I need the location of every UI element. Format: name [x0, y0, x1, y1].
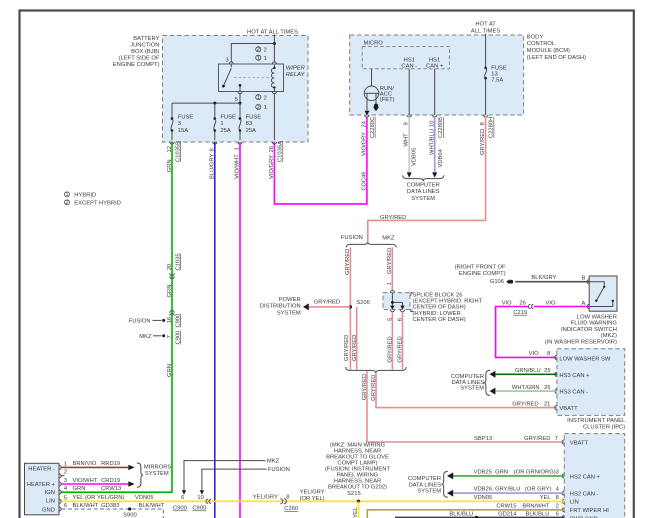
wire: branch to relay pin 3	[231, 44, 274, 62]
svg-text:CRW13: CRW13	[101, 486, 121, 492]
wire WHT/BLU (to data link)	[434, 117, 436, 172]
connector C219 arcs	[528, 304, 533, 308]
svg-text:BODY: BODY	[527, 34, 544, 40]
svg-text:BLK/BLU: BLK/BLU	[526, 512, 550, 518]
svg-text:16: 16	[167, 317, 173, 323]
svg-text:YEL: YEL	[540, 495, 552, 501]
node S215	[357, 500, 360, 503]
svg-text:1: 1	[387, 282, 393, 285]
svg-text:INSTRUMENT PANEL: INSTRUMENT PANEL	[567, 418, 626, 424]
svg-text:HYBRID: HYBRID	[74, 192, 96, 198]
svg-text:VDN05: VDN05	[474, 495, 493, 501]
svg-text:C1035: C1035	[175, 253, 181, 270]
svg-text:FUSION: FUSION	[341, 235, 363, 241]
svg-text:CENTER OF DASH): CENTER OF DASH)	[413, 305, 466, 311]
svg-text:(OR GRY): (OR GRY)	[525, 487, 552, 493]
svg-text:YEL/GRY: YEL/GRY	[253, 495, 278, 501]
svg-text:25A: 25A	[246, 128, 256, 134]
svg-text:GRN: GRN	[167, 364, 173, 377]
wire BRN/WHT frt wiper hi	[367, 510, 564, 518]
svg-text:VIO: VIO	[546, 301, 556, 307]
svg-text:INDICATOR SWITCH: INDICATOR SWITCH	[561, 327, 617, 333]
wire GRY/RED merged to IPC VBATT pin21	[376, 373, 557, 408]
svg-text:MKZ: MKZ	[382, 235, 395, 241]
svg-text:S206: S206	[356, 300, 370, 306]
svg-text:YEL/GRY: YEL/GRY	[300, 490, 325, 496]
svg-text:8: 8	[556, 495, 559, 501]
pin number labels 1-6	[64, 461, 68, 509]
wire VIO/GRY (BJB pin26 to BCM pin24)	[274, 117, 367, 204]
svg-text:CDC46: CDC46	[361, 171, 367, 190]
svg-text:BLK/WHT: BLK/WHT	[139, 503, 165, 509]
splice S215 location label	[325, 442, 391, 496]
legend except hybrid	[65, 200, 121, 207]
wire: feed into BJB	[273, 35, 275, 62]
computer data lines system label	[451, 374, 484, 392]
IPC2 pin names	[570, 440, 609, 518]
relay coil	[273, 65, 275, 68]
wire GRY/RED MKZ branch to splice block	[391, 247, 393, 290]
svg-text:(MKZ): (MKZ)	[601, 333, 617, 339]
svg-text:VDN05: VDN05	[135, 495, 154, 501]
svg-text:(LEFT END OF DASH): (LEFT END OF DASH)	[527, 55, 586, 61]
body control module BCM enclosure	[350, 35, 524, 115]
svg-text:GRN: GRN	[167, 285, 173, 298]
svg-text:GRN: GRN	[495, 470, 508, 476]
wiper relay box	[219, 64, 284, 92]
svg-text:C900: C900	[192, 506, 206, 512]
node S900	[128, 507, 131, 510]
svg-text:GD383: GD383	[101, 503, 119, 509]
svg-text:FUSE: FUSE	[246, 115, 262, 121]
svg-text:BLK/WHT: BLK/WHT	[73, 503, 99, 509]
wire GRY/RED FUSION branch to S206 and down	[349, 247, 351, 369]
svg-text:GRN/BLU: GRN/BLU	[515, 368, 541, 374]
svg-text:MKZ: MKZ	[139, 334, 152, 340]
module pin names	[27, 466, 56, 513]
wire: HS1 CAN- inside BCM	[408, 69, 410, 115]
svg-text:EXCEPT HYBRID: EXCEPT HYBRID	[74, 200, 121, 206]
svg-text:GRY/RED: GRY/RED	[524, 436, 550, 442]
wire BRN/VIO heater-	[62, 466, 129, 468]
svg-text:15A: 15A	[178, 128, 188, 134]
splice block internal bus	[392, 293, 402, 307]
fuse 83 25A	[239, 103, 261, 140]
wire GRY/RED second branch from S206 run	[356, 307, 358, 370]
svg-text:C2280B: C2280B	[438, 117, 444, 138]
fuse 1 25A	[214, 103, 236, 140]
svg-text:3: 3	[225, 58, 228, 64]
brace under data line arrows	[403, 175, 444, 181]
svg-text:GD214: GD214	[498, 512, 517, 518]
relay armature dashed link	[234, 77, 271, 79]
svg-text:8: 8	[547, 351, 550, 357]
wire GRN/BLU HS3 CAN+	[495, 373, 557, 375]
power distribution system label	[260, 297, 301, 317]
svg-text:VIO/WHT: VIO/WHT	[73, 478, 98, 484]
pin arc coil bottom	[272, 92, 276, 94]
svg-text:2: 2	[264, 95, 267, 101]
pin 5 arc	[238, 92, 242, 94]
svg-text:FUSION: FUSION	[268, 467, 290, 473]
wire BLK/WHT gnd dashed	[62, 509, 164, 518]
svg-text:2: 2	[257, 47, 260, 53]
brace computer data lines (HS3)	[484, 370, 490, 395]
svg-text:1: 1	[257, 95, 260, 101]
svg-text:SYSTEM: SYSTEM	[411, 196, 435, 202]
legend hybrid	[65, 192, 97, 199]
wire: pin5 to fuse bus	[239, 94, 241, 104]
ground G106	[455, 265, 514, 286]
fuse 13 7.5A	[484, 65, 507, 83]
svg-text:LIN: LIN	[46, 498, 55, 504]
svg-text:(FET): (FET)	[380, 97, 395, 103]
svg-text:1: 1	[65, 192, 68, 198]
svg-text:HS3 CAN -: HS3 CAN -	[559, 390, 588, 396]
svg-text:HS3 CAN +: HS3 CAN +	[559, 373, 590, 379]
connector C260 arcs	[280, 499, 286, 504]
svg-text:BATTERY: BATTERY	[133, 36, 159, 42]
svg-text:GRY/RED: GRY/RED	[344, 335, 350, 361]
svg-text:BLK/GRY: BLK/GRY	[531, 275, 556, 281]
svg-text:FRT WIPER HI: FRT WIPER HI	[570, 508, 609, 514]
svg-text:COMPUTER: COMPUTER	[408, 476, 441, 482]
wire BLK/GRY to washer switch	[515, 281, 589, 283]
svg-text:BRN/VIO: BRN/VIO	[73, 461, 97, 467]
svg-text:20: 20	[167, 264, 173, 270]
svg-text:1: 1	[264, 105, 267, 111]
svg-text:YEL (OR YEL/GRN): YEL (OR YEL/GRN)	[73, 495, 125, 501]
svg-text:GRY/RED: GRY/RED	[352, 335, 358, 361]
svg-text:CRD19: CRD19	[101, 478, 120, 484]
splice block 26	[383, 293, 410, 310]
relay switch blade	[223, 64, 231, 86]
svg-text:C219: C219	[513, 310, 527, 316]
wire BLK/BLU pwr gnd	[395, 516, 564, 518]
svg-text:RELAY: RELAY	[286, 72, 306, 78]
pin 2 stub	[61, 475, 64, 477]
svg-text:GRY/RED: GRY/RED	[512, 401, 538, 407]
svg-text:GRY/RED: GRY/RED	[314, 300, 340, 306]
svg-text:6: 6	[181, 495, 184, 501]
svg-text:HOT AT: HOT AT	[475, 22, 496, 28]
BJB name label	[113, 36, 160, 68]
computer data lines system label	[407, 182, 440, 202]
svg-text:GND: GND	[42, 507, 55, 513]
wire GRY/RED merged to IPC2 VBATT pin7 (SBP13)	[367, 371, 564, 442]
svg-text:MKZ: MKZ	[267, 458, 280, 464]
svg-text:GRY/BLU: GRY/BLU	[495, 487, 520, 493]
svg-text:26: 26	[544, 385, 550, 391]
wire: HS1 CAN+ inside BCM	[434, 69, 436, 115]
mirrors system brace	[137, 463, 143, 487]
computer data lines system label	[408, 476, 441, 494]
svg-text:3: 3	[556, 470, 559, 476]
low washer fluid warning indicator switch	[589, 276, 617, 311]
svg-text:YEL: YEL	[353, 506, 359, 518]
wire: BCM feed	[485, 34, 487, 68]
svg-text:CRW15: CRW15	[496, 504, 516, 510]
svg-text:C2280H: C2280H	[489, 117, 495, 138]
wire YEL below S215	[358, 501, 360, 518]
svg-text:HS1: HS1	[429, 57, 440, 63]
circled qualifier 1 / pin 2 (below coil)	[256, 95, 261, 100]
svg-text:25A: 25A	[220, 128, 230, 134]
svg-text:DATA LINES: DATA LINES	[407, 189, 440, 195]
wire GRN HS2 CAN+	[453, 475, 564, 477]
brace computer data lines (HS2)	[442, 471, 448, 497]
svg-text:HEATER -: HEATER -	[28, 466, 55, 472]
svg-text:(HYBRID: LOWER: (HYBRID: LOWER	[413, 311, 461, 317]
svg-text:DATA LINES: DATA LINES	[408, 482, 441, 488]
svg-text:3: 3	[64, 478, 67, 484]
connector arcs on YEL at C900	[206, 499, 211, 503]
MICRO sub-module box	[362, 47, 449, 69]
pin arc relay pin3	[229, 62, 233, 64]
svg-text:(EXCEPT HYBRID: RIGHT: (EXCEPT HYBRID: RIGHT	[413, 299, 483, 305]
pin arc relay coil top	[272, 62, 276, 64]
svg-text:GRY/RED: GRY/RED	[398, 336, 404, 362]
svg-text:COMPT LAMP): COMPT LAMP)	[337, 460, 377, 466]
svg-text:G106: G106	[490, 279, 504, 285]
wire VIO switch A to IPC	[496, 307, 590, 358]
svg-text:2: 2	[257, 105, 260, 111]
wire: fuse to BCM pin 8	[485, 78, 487, 115]
instrument panel cluster IPC box 2	[564, 434, 624, 518]
svg-text:C2280C: C2280C	[370, 117, 376, 138]
svg-text:10: 10	[197, 495, 203, 501]
transistor RUN/ACC FET driver	[364, 69, 394, 115]
svg-text:1: 1	[264, 56, 267, 62]
svg-text:MODULE (BCM): MODULE (BCM)	[527, 48, 570, 54]
svg-text:6: 6	[64, 503, 67, 509]
svg-text:GRY/RED: GRY/RED	[345, 249, 351, 275]
svg-text:S900: S900	[123, 513, 137, 518]
svg-text:LIN: LIN	[570, 500, 579, 506]
wire WHT (to data link)	[408, 117, 410, 172]
svg-text:HS2 CAN -: HS2 CAN -	[570, 492, 599, 498]
svg-text:VDB25: VDB25	[474, 470, 492, 476]
BCM name label	[527, 34, 586, 60]
IPC pin arcs	[555, 355, 557, 409]
wire: coil output down to BJB edge	[273, 94, 275, 141]
svg-text:CAN -: CAN -	[401, 64, 417, 70]
svg-text:ENGINE COMPT): ENGINE COMPT)	[459, 271, 506, 277]
svg-text:CLUSTER (IPC): CLUSTER (IPC)	[583, 424, 625, 430]
svg-text:SYSTEM: SYSTEM	[145, 471, 169, 477]
svg-text:BRN/WHT: BRN/WHT	[522, 504, 550, 510]
svg-text:LOW WASHER SW: LOW WASHER SW	[559, 356, 611, 362]
svg-text:RRD19: RRD19	[101, 461, 120, 467]
svg-text:VBATT: VBATT	[559, 406, 578, 412]
splice block label brackets	[411, 293, 413, 312]
svg-text:HS1: HS1	[404, 57, 415, 63]
svg-text:WIPER: WIPER	[286, 65, 306, 71]
circled qualifier 2 / pin 2 (above coil)	[256, 47, 261, 52]
fuse 3 15A	[171, 103, 194, 140]
svg-text:HEATER +: HEATER +	[27, 482, 56, 488]
svg-text:FLUID WARNING: FLUID WARNING	[571, 321, 618, 327]
svg-text:C1035A: C1035A	[278, 141, 284, 162]
svg-text:6: 6	[556, 512, 559, 518]
wire GRY/RED S206 to power distribution	[309, 306, 351, 308]
wire GRY/RED splice pin6 down	[402, 312, 404, 370]
svg-text:VDB04: VDB04	[438, 148, 444, 167]
pin 1 arc	[390, 291, 394, 293]
relay switch contact to pin 5	[239, 84, 242, 87]
svg-text:MIRRORS: MIRRORS	[144, 464, 172, 470]
wire WHT/GRN HS3 CAN-	[495, 390, 557, 392]
svg-text:GRN: GRN	[73, 486, 86, 492]
svg-text:GRY/RED: GRY/RED	[371, 374, 377, 400]
svg-text:VDB26: VDB26	[474, 487, 492, 493]
svg-text:8: 8	[286, 495, 289, 501]
wire GRY/BLU HS2 CAN-	[453, 492, 564, 494]
svg-text:CAN +: CAN +	[426, 64, 444, 70]
circled qualifier 2 / pin 1 (below coil)	[256, 104, 261, 109]
instrument panel cluster IPC box 1	[557, 349, 625, 416]
wire: fuse bus	[172, 102, 240, 104]
circled qualifier 1 / pin 1 (above coil)	[256, 55, 261, 60]
svg-text:COMPUTER: COMPUTER	[407, 182, 440, 188]
svg-text:S215: S215	[347, 491, 361, 497]
svg-text:5: 5	[64, 495, 67, 501]
svg-text:7.5A: 7.5A	[491, 77, 503, 83]
svg-text:WHT/BLU: WHT/BLU	[429, 129, 435, 155]
svg-text:C900: C900	[173, 506, 187, 512]
svg-text:FUSE: FUSE	[220, 115, 236, 121]
svg-text:C260: C260	[284, 506, 298, 512]
heated mirror module box	[25, 463, 60, 515]
svg-text:2: 2	[65, 200, 68, 206]
wire YEL lin full run	[62, 500, 565, 502]
svg-text:21: 21	[544, 401, 550, 407]
svg-text:HS2 CAN +: HS2 CAN +	[570, 474, 601, 480]
svg-text:POWER: POWER	[279, 297, 301, 303]
svg-text:83: 83	[246, 121, 252, 127]
pins 5,6 arcs	[390, 310, 404, 312]
BCM bottom pin arcs	[365, 115, 488, 117]
svg-text:7: 7	[167, 335, 173, 338]
svg-text:1: 1	[64, 461, 67, 467]
svg-text:2: 2	[64, 470, 67, 476]
svg-text:VIO/GRY: VIO/GRY	[361, 132, 367, 156]
svg-text:VIO: VIO	[502, 301, 512, 307]
wire VIO/WHT vertical	[239, 142, 241, 518]
svg-text:1: 1	[257, 56, 260, 62]
svg-text:5: 5	[235, 97, 238, 103]
battery junction box BJB enclosure	[163, 36, 309, 143]
svg-text:(IN WASHER RESERVOIR): (IN WASHER RESERVOIR)	[545, 340, 617, 346]
svg-text:VDB05: VDB05	[412, 148, 418, 166]
svg-text:(RIGHT FRONT OF: (RIGHT FRONT OF	[455, 265, 506, 271]
svg-text:FUSION: FUSION	[129, 318, 151, 324]
pin A arc	[587, 304, 589, 308]
svg-text:C900: C900	[175, 314, 181, 328]
svg-text:WHT: WHT	[403, 133, 409, 147]
svg-text:IGN: IGN	[45, 490, 55, 496]
svg-text:25: 25	[544, 368, 550, 374]
svg-text:3: 3	[178, 121, 181, 127]
node: bus junction at fuse 83	[239, 102, 242, 105]
pin B arc	[587, 280, 589, 284]
svg-text:GRY/RED: GRY/RED	[387, 336, 393, 362]
svg-text:2: 2	[556, 504, 559, 510]
IPC2 pin arcs	[562, 440, 564, 518]
BJB bottom pin arcs	[170, 142, 277, 144]
module pin arcs	[59, 465, 61, 511]
svg-text:CENTER OF DASH): CENTER OF DASH)	[413, 317, 466, 323]
node: bus junction at fuse 1	[213, 102, 216, 105]
svg-text:SBP13: SBP13	[474, 436, 492, 442]
svg-text:7: 7	[555, 436, 558, 442]
node S206	[349, 305, 352, 308]
wire VIO/WHT heater+	[62, 483, 129, 485]
svg-text:BOX (BJB): BOX (BJB)	[131, 49, 159, 55]
svg-text:C1035B: C1035B	[175, 141, 181, 162]
svg-text:GRY/RED: GRY/RED	[380, 215, 406, 221]
svg-text:26: 26	[519, 301, 525, 307]
svg-text:VBATT: VBATT	[570, 440, 589, 446]
harness merge brace	[346, 367, 407, 373]
svg-text:1: 1	[220, 121, 223, 127]
wire GRY/RED splice pin5 down	[391, 312, 393, 370]
svg-text:SYSTEM: SYSTEM	[417, 488, 441, 494]
svg-text:(LEFT SIDE OF: (LEFT SIDE OF	[119, 56, 160, 62]
svg-text:HOT AT ALL TIMES: HOT AT ALL TIMES	[247, 30, 298, 36]
svg-text:VIO: VIO	[529, 351, 539, 357]
svg-text:2: 2	[264, 48, 267, 54]
svg-text:DISTRIBUTION: DISTRIBUTION	[260, 304, 301, 310]
svg-text:BLK/BLU: BLK/BLU	[449, 512, 473, 518]
svg-text:SYSTEM: SYSTEM	[277, 310, 301, 316]
wire GRN vertical (BJB fuse3 to mirror module)	[62, 142, 173, 492]
connector C1035 inline on GRN	[170, 273, 174, 278]
svg-text:CONTROL: CONTROL	[527, 41, 556, 47]
svg-text:GRY/RED: GRY/RED	[362, 374, 368, 400]
wire BLU/GRY vertical	[214, 142, 216, 518]
svg-text:JUNCTION: JUNCTION	[130, 42, 159, 48]
svg-text:WHT/GRN: WHT/GRN	[512, 385, 540, 391]
svg-text:MICRO: MICRO	[364, 41, 384, 47]
svg-text:24: 24	[361, 120, 367, 127]
svg-text:FUSE: FUSE	[178, 115, 194, 121]
svg-text:LOW WASHER: LOW WASHER	[577, 314, 617, 320]
svg-text:ENGINE COMPT): ENGINE COMPT)	[113, 62, 160, 68]
node: feed junction	[273, 42, 276, 45]
svg-text:GRY/RED: GRY/RED	[387, 248, 393, 274]
IPC pin names	[559, 356, 611, 412]
svg-text:(OR YEL): (OR YEL)	[300, 496, 325, 502]
splice block 26 label	[413, 292, 483, 323]
svg-text:B: B	[582, 276, 586, 282]
washer switch name label	[545, 314, 618, 345]
svg-text:SYSTEM: SYSTEM	[460, 386, 484, 392]
harness split brace FUSION/MKZ	[346, 242, 396, 248]
svg-text:C900: C900	[175, 331, 181, 345]
wire GRY/RED from BCM pin 8	[368, 117, 486, 242]
svg-text:SPLICE BLOCK 26: SPLICE BLOCK 26	[413, 292, 463, 298]
svg-text:BREAKOUT TO G202): BREAKOUT TO G202)	[328, 485, 387, 491]
svg-text:(OR GRN/ORG): (OR GRN/ORG)	[514, 470, 556, 476]
connector C900 inline on GRN	[170, 311, 174, 316]
